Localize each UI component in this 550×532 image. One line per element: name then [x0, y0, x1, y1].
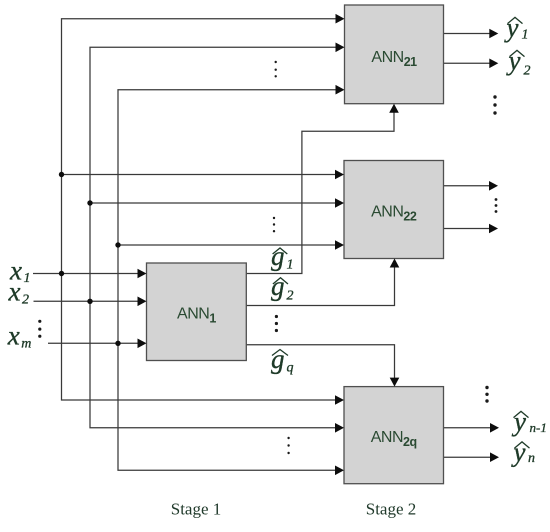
svg-text:Stage 2: Stage 2: [366, 500, 417, 519]
svg-text:Stage 1: Stage 1: [171, 500, 222, 519]
